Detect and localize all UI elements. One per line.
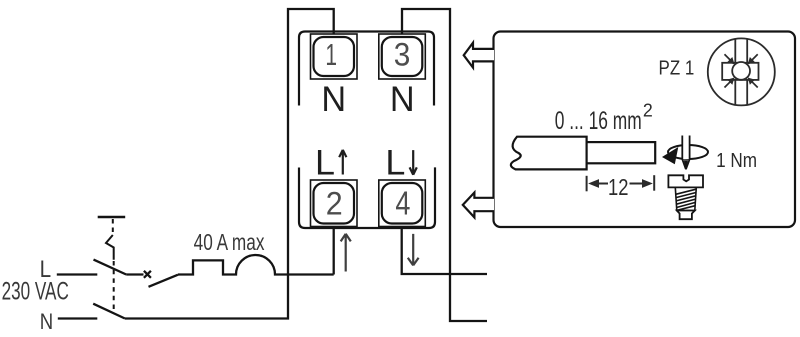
svg-text:1 Nm: 1 Nm <box>716 149 757 172</box>
inset box <box>494 32 796 228</box>
switch blade L pole <box>94 260 127 275</box>
wire terminal 2 riser <box>333 227 335 275</box>
breaker thermal zigzag <box>106 235 114 260</box>
svg-text:230 VAC: 230 VAC <box>2 276 69 305</box>
screw head <box>668 175 703 187</box>
svg-text:N: N <box>40 309 53 334</box>
svg-text:0 ... 16 mm: 0 ... 16 mm <box>555 106 642 135</box>
svg-text:2: 2 <box>326 184 343 221</box>
wire N stub <box>58 317 98 319</box>
svg-text:12: 12 <box>608 175 628 201</box>
rotation arrow ellipse <box>668 145 708 159</box>
terminal 1 <box>311 34 358 79</box>
screw tip <box>677 211 695 220</box>
cable body <box>511 137 587 170</box>
wire L stub <box>57 273 98 275</box>
switch blade N pole <box>93 304 125 319</box>
svg-text:40 A max: 40 A max <box>194 230 265 255</box>
breaker contact X <box>144 271 151 278</box>
wire N to terminal 1 <box>125 9 334 319</box>
cable conductor <box>587 142 656 163</box>
breaker top bar <box>98 216 126 219</box>
svg-text:N: N <box>390 79 415 119</box>
terminal 3 <box>379 34 426 79</box>
svg-text:1: 1 <box>325 37 337 72</box>
screw shank with threads <box>675 187 696 210</box>
terminal 4 <box>379 180 426 227</box>
big arrow lower <box>463 193 494 218</box>
module outline top bracket <box>299 32 434 106</box>
breaker link dashes upper <box>112 219 114 235</box>
wire L to breaker contact <box>126 273 143 275</box>
dimension tick left <box>586 176 588 192</box>
big arrow upper <box>464 43 494 68</box>
svg-text:4: 4 <box>395 185 410 222</box>
arrow down from terminal 4 <box>408 234 419 266</box>
svg-text:N: N <box>321 79 346 119</box>
wire terminal 4 output <box>402 227 487 274</box>
svg-text:L: L <box>385 143 405 183</box>
svg-text:L: L <box>315 143 335 183</box>
switch blade L second <box>149 275 179 287</box>
breaker link dashes lower <box>113 261 115 311</box>
wire terminal 3 hook to output <box>402 9 487 321</box>
arrow up into terminal 2 <box>341 234 351 272</box>
screwdriver blade <box>682 136 689 160</box>
dimension arrow left <box>590 180 609 187</box>
svg-text:PZ 1: PZ 1 <box>659 57 695 80</box>
dimension arrow right <box>630 180 652 187</box>
pozidriv tick arrows <box>722 52 760 90</box>
wire L through fuse element to terminal 2 riser <box>178 255 334 275</box>
arrow down beside L4 <box>410 150 417 175</box>
module outline bottom bracket <box>299 167 435 228</box>
rotation arrowhead <box>662 147 678 164</box>
pozidriv circle <box>708 38 775 105</box>
dimension tick right <box>653 175 655 191</box>
arrow up beside L2 <box>339 150 346 175</box>
svg-text:2: 2 <box>643 100 653 120</box>
terminal 2 <box>311 180 358 227</box>
svg-text:3: 3 <box>394 37 411 73</box>
